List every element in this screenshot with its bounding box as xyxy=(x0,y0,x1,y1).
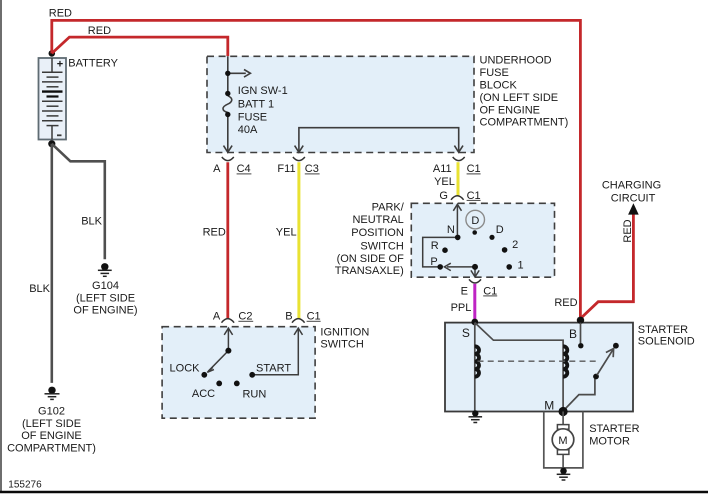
wire YEL fuse A11-C1 to park/neutral switch G-C1 xyxy=(434,162,458,195)
svg-text:A11: A11 xyxy=(433,163,452,175)
underhood fuse block xyxy=(207,55,568,153)
contact N xyxy=(455,235,461,241)
contact 2 xyxy=(502,247,508,253)
svg-text:BLK: BLK xyxy=(81,215,102,227)
ground at starter motor xyxy=(557,468,571,480)
wire PPL PNP E-C1 to solenoid S xyxy=(451,284,475,319)
svg-text:OF ENGINE: OF ENGINE xyxy=(21,430,82,442)
svg-text:CHARGING: CHARGING xyxy=(602,180,661,192)
contact ACC xyxy=(216,381,222,387)
mechanical link (dashed) xyxy=(478,360,598,362)
svg-text:TRANSAXLE): TRANSAXLE) xyxy=(335,265,404,277)
svg-text:PPL: PPL xyxy=(451,302,472,314)
svg-text:E: E xyxy=(461,285,468,297)
svg-text:CIRCUIT: CIRCUIT xyxy=(611,193,656,205)
svg-text:MOTOR: MOTOR xyxy=(589,436,630,448)
contact RUN xyxy=(234,381,240,387)
svg-text:+: + xyxy=(57,59,63,71)
battery negative node xyxy=(48,140,55,147)
solenoid terminal S xyxy=(471,319,478,326)
svg-text:COMPARTMENT): COMPARTMENT) xyxy=(480,117,569,129)
svg-text:G: G xyxy=(439,190,448,202)
svg-text:BATT 1: BATT 1 xyxy=(238,98,274,110)
starter motor xyxy=(544,412,640,468)
svg-text:RUN: RUN xyxy=(242,389,266,401)
wire RED battery branch to underhood fuse block xyxy=(52,25,228,57)
svg-text:(ON LEFT SIDE: (ON LEFT SIDE xyxy=(480,92,559,104)
battery positive node xyxy=(49,50,56,57)
svg-text:(ON SIDE OF: (ON SIDE OF xyxy=(337,253,405,265)
connector A11 C1 xyxy=(433,157,481,175)
svg-text:155276: 155276 xyxy=(8,480,42,491)
svg-text:(LEFT SIDE: (LEFT SIDE xyxy=(76,292,135,304)
svg-text:YEL: YEL xyxy=(434,176,455,188)
svg-text:POSITION: POSITION xyxy=(351,227,404,239)
svg-text:STARTER: STARTER xyxy=(638,324,688,336)
starter solenoid xyxy=(445,323,695,412)
svg-text:RED: RED xyxy=(554,297,577,309)
fuse block internal bus to F11 and A11 xyxy=(295,128,463,153)
connector B C1 (ignition input) xyxy=(285,311,320,323)
wire BLK battery to G104 xyxy=(52,144,105,259)
park/neutral position switch xyxy=(335,202,555,278)
ignition switch internals xyxy=(170,328,303,400)
svg-text:RED: RED xyxy=(203,226,226,238)
svg-text:R: R xyxy=(431,240,439,252)
ignition switch xyxy=(162,326,369,418)
svg-text:ACC: ACC xyxy=(192,388,215,400)
svg-text:M: M xyxy=(544,399,554,413)
svg-text:YEL: YEL xyxy=(276,226,297,238)
svg-text:IGNITION: IGNITION xyxy=(320,326,369,338)
svg-text:STARTER: STARTER xyxy=(589,423,639,435)
position indicator circled D xyxy=(466,210,485,229)
svg-text:FUSE: FUSE xyxy=(480,67,509,79)
contact P xyxy=(437,264,443,270)
svg-text:G102: G102 xyxy=(38,406,65,418)
svg-text:RED: RED xyxy=(622,219,634,242)
svg-text:SWITCH: SWITCH xyxy=(360,240,403,252)
ground G102 xyxy=(7,387,96,455)
svg-text:IGN SW-1: IGN SW-1 xyxy=(238,85,288,97)
ground at solenoid coil xyxy=(469,410,483,422)
svg-text:COMPARTMENT): COMPARTMENT) xyxy=(7,442,96,454)
svg-text:40A: 40A xyxy=(238,124,258,136)
PNP internals xyxy=(423,204,524,277)
svg-text:OF ENGINE): OF ENGINE) xyxy=(73,305,137,317)
connector F11 C3 xyxy=(277,157,319,175)
svg-text:(LEFT SIDE: (LEFT SIDE xyxy=(22,418,81,430)
svg-text:M: M xyxy=(558,435,567,447)
svg-text:A: A xyxy=(213,163,221,175)
solenoid terminal B xyxy=(577,317,584,324)
battery xyxy=(39,58,119,140)
svg-text:BATTERY: BATTERY xyxy=(68,58,118,70)
svg-text:G104: G104 xyxy=(92,280,119,292)
connector G C1 (PNP input) xyxy=(439,190,480,202)
contact R xyxy=(442,247,448,253)
svg-text:BLK: BLK xyxy=(29,283,50,295)
connector A C4 xyxy=(213,157,251,175)
connector E C1 (PNP output) xyxy=(461,279,498,297)
svg-text:S: S xyxy=(462,326,470,340)
svg-text:SOLENOID: SOLENOID xyxy=(638,335,695,347)
svg-text:F11: F11 xyxy=(277,163,295,175)
wire YEL fuse F11-C3 to ignition switch B-C1 xyxy=(276,162,299,318)
svg-text:RED: RED xyxy=(49,7,72,19)
contact START xyxy=(249,372,255,378)
contact under indicator xyxy=(472,230,477,235)
fuse IGN SW-1 BATT 1 FUSE 40A xyxy=(223,56,288,152)
svg-text:A: A xyxy=(213,311,221,323)
solenoid pull-in coil (S to ground) xyxy=(475,323,479,412)
svg-text:NEUTRAL: NEUTRAL xyxy=(352,214,403,226)
svg-text:SWITCH: SWITCH xyxy=(320,338,363,350)
contact LOCK xyxy=(201,372,207,378)
solenoid B fixed contact xyxy=(578,323,583,349)
svg-text:BLOCK: BLOCK xyxy=(480,80,518,92)
svg-text:N: N xyxy=(447,224,455,236)
contact 1 xyxy=(506,264,512,270)
wiper node xyxy=(472,264,478,270)
solenoid terminal M xyxy=(559,407,568,416)
svg-text:START: START xyxy=(256,363,291,375)
svg-text:1: 1 xyxy=(518,259,524,271)
wire BLK battery to G102 xyxy=(29,144,52,383)
svg-text:B: B xyxy=(569,327,577,341)
svg-text:P: P xyxy=(430,256,437,268)
solenoid hold-in coil (S to M) xyxy=(475,323,568,411)
solenoid contact arm M to B xyxy=(563,343,619,411)
svg-text:PARK/: PARK/ xyxy=(372,202,405,214)
wire RED battery to solenoid B (top rail) xyxy=(49,7,581,318)
svg-text:2: 2 xyxy=(512,239,518,251)
ground G104 xyxy=(73,263,137,317)
svg-text:OF ENGINE: OF ENGINE xyxy=(480,104,541,116)
wire RED fuse A-C4 to ignition switch A-C2 xyxy=(203,162,228,318)
svg-text:LOCK: LOCK xyxy=(170,363,201,375)
svg-text:B: B xyxy=(285,311,292,323)
svg-text:UNDERHOOD: UNDERHOOD xyxy=(480,55,552,67)
svg-text:D: D xyxy=(471,215,479,227)
svg-text:D: D xyxy=(496,224,504,236)
wire RED to charging circuit xyxy=(554,180,661,319)
svg-text:FUSE: FUSE xyxy=(238,111,267,123)
contact D xyxy=(489,235,494,240)
svg-text:RED: RED xyxy=(88,25,111,37)
connector A C2 (ignition input) xyxy=(213,311,253,323)
